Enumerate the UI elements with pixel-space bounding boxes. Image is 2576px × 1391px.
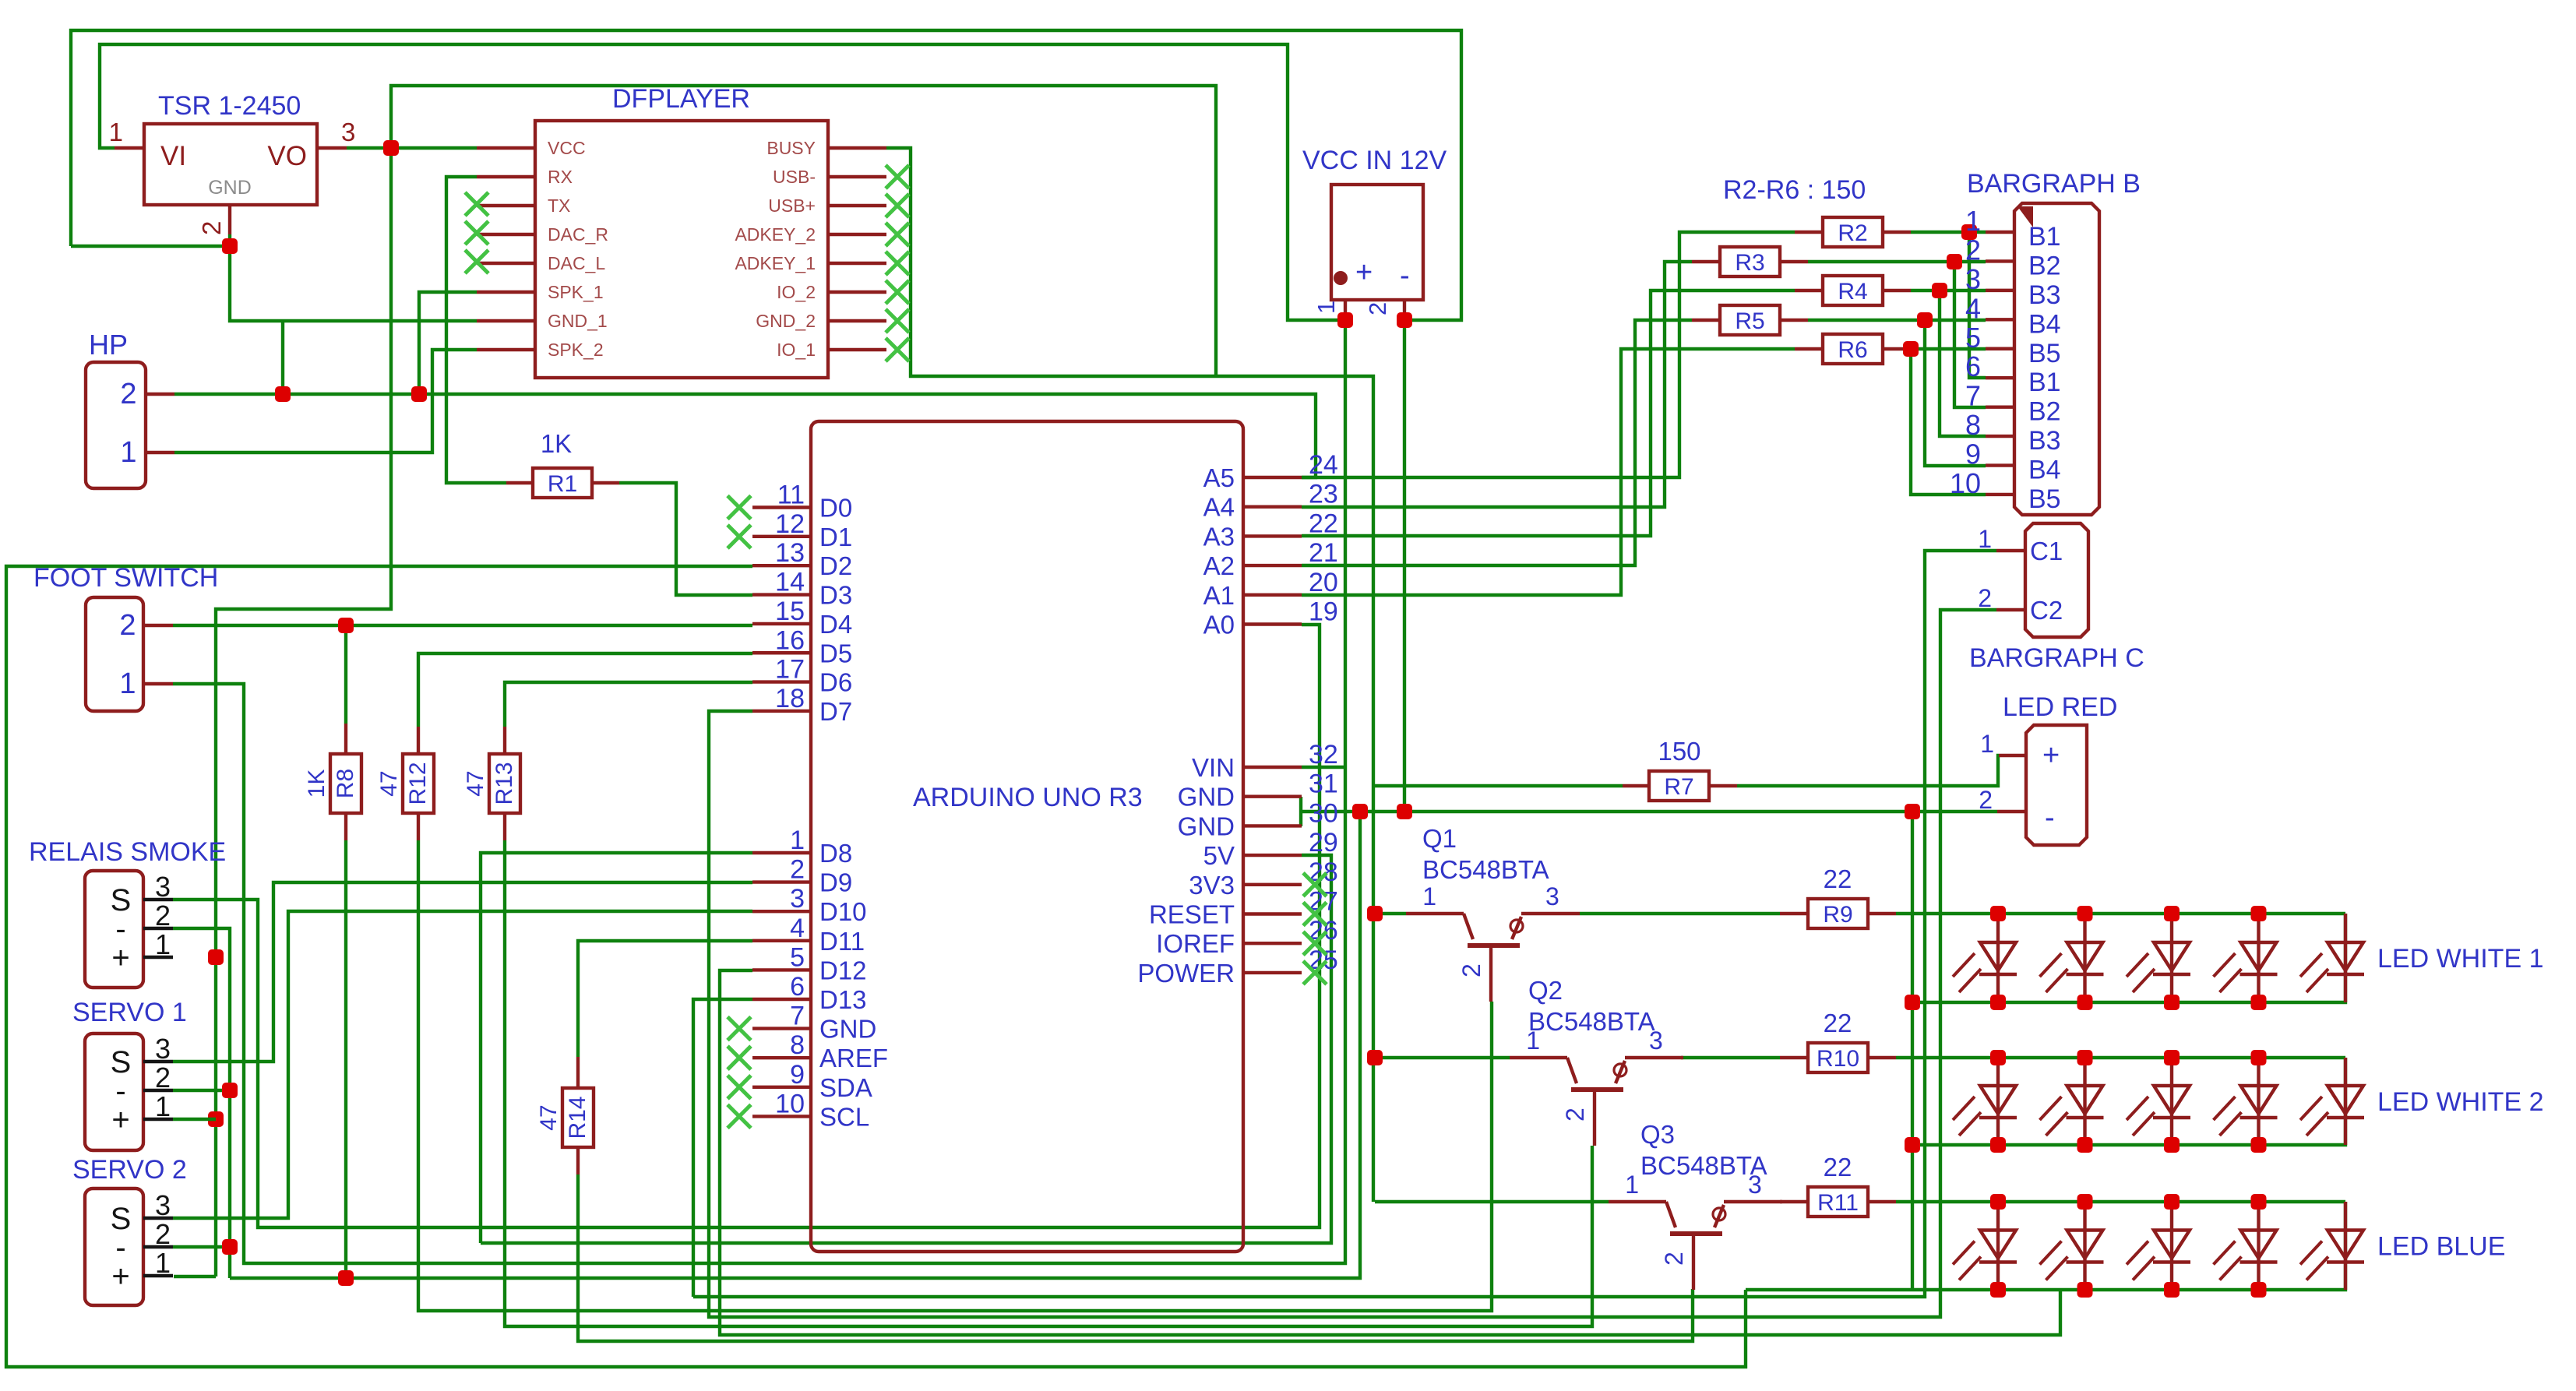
no-connect X DAC_R [465, 221, 488, 245]
svg-text:3V3: 3V3 [1189, 871, 1235, 900]
wire LED row3 bottom bus [1746, 1202, 2345, 1290]
svg-text:2: 2 [1979, 786, 1993, 814]
svg-text:+: + [111, 941, 129, 975]
node R3 out junction [1947, 254, 1962, 269]
node R4 out junction [1932, 283, 1947, 298]
R8 leads [344, 724, 347, 754]
node GND bus junction 3 [1905, 804, 1920, 819]
led LED WHITE 1 #2 [2083, 914, 2086, 1002]
node SERVO1 - junction [222, 1083, 238, 1098]
Arduino pin 5 D12 [752, 968, 811, 971]
wire Q2 collector to R10 [1681, 1056, 1780, 1059]
Arduino pin 32 VIN [1243, 766, 1302, 769]
svg-text:BC548BTA: BC548BTA [1640, 1151, 1767, 1180]
wire GND loop top [71, 30, 1461, 320]
no-connect X TX [465, 192, 488, 216]
no-connect X USB- [886, 165, 909, 188]
R4 leads [1795, 289, 1823, 292]
FOOT SWITCH pin 2 [143, 624, 173, 627]
DFPLAYER pin RX [477, 175, 535, 178]
svg-text:D9: D9 [819, 868, 852, 897]
R14 leads [576, 1057, 580, 1088]
svg-text:8: 8 [1965, 409, 1981, 441]
svg-text:10: 10 [775, 1089, 805, 1118]
led LED BLUE #2 [2083, 1202, 2086, 1290]
svg-text:1: 1 [155, 1247, 171, 1279]
svg-text:R7: R7 [1664, 774, 1693, 800]
svg-text:1K: 1K [304, 769, 329, 798]
no-connect X SCL [728, 1104, 751, 1128]
svg-text:22: 22 [1824, 865, 1852, 893]
svg-text:HP: HP [89, 329, 128, 361]
node R6 out junction [1903, 341, 1919, 357]
wire A3 riser to R4 [1302, 291, 1795, 536]
DFPLAYER pin IO_1 [828, 348, 886, 351]
led LED WHITE 2 #4 [2257, 1058, 2260, 1145]
svg-text:22: 22 [1824, 1009, 1852, 1037]
node GND bus junction 2 [1397, 804, 1412, 819]
svg-text:4: 4 [790, 914, 805, 943]
node GND bus junction 1 [1352, 804, 1368, 819]
no-connect X D0 [728, 496, 751, 519]
node Q2 base junction [1367, 1050, 1383, 1065]
wire SERVO1 plus stub wire [173, 1118, 216, 1121]
svg-text:22: 22 [1309, 509, 1338, 538]
svg-text:1: 1 [1625, 1171, 1639, 1199]
Arduino pin 31 GND [1243, 795, 1302, 798]
node VCC junction [383, 140, 399, 156]
wire RX to R1 [446, 177, 506, 483]
wire R3 out [1808, 260, 1986, 263]
svg-text:R13: R13 [492, 762, 517, 805]
svg-text:1: 1 [1422, 882, 1436, 910]
Arduino pin 25 POWER [1243, 971, 1302, 974]
resistor R8 1K [330, 754, 361, 813]
node LED row1 bottom GND junction [1905, 995, 1920, 1010]
wire HP1-SPK2 [174, 350, 477, 453]
wire D7 to C2 bus [709, 610, 1996, 1317]
wire A0 to RELAIS S [173, 625, 1320, 1227]
svg-text:B2: B2 [2028, 397, 2061, 427]
DFPLAYER pin ADKEY_1 [828, 262, 886, 265]
resistor R10 22 [1808, 1043, 1868, 1072]
SERVO 2 pin 1 + [143, 1274, 173, 1277]
svg-text:GND: GND [1178, 783, 1235, 812]
led LED WHITE 2 #5 [2344, 1058, 2347, 1145]
svg-text:B5: B5 [2028, 339, 2061, 368]
svg-text:1: 1 [1980, 730, 1994, 758]
no-connect X 3V3 [1303, 873, 1327, 896]
svg-text:D10: D10 [819, 897, 867, 926]
svg-text:3: 3 [790, 884, 805, 914]
svg-text:BUSY: BUSY [766, 138, 816, 158]
DFPLAYER pin VCC [477, 146, 535, 150]
svg-text:Q2: Q2 [1528, 976, 1563, 1005]
wire A2 riser to R5 [1302, 320, 1692, 565]
svg-text:D0: D0 [819, 494, 852, 523]
svg-text:GND: GND [819, 1015, 876, 1044]
resistor R7 150 [1649, 771, 1709, 801]
wire R4 out [1911, 289, 1986, 292]
SERVO 1 pin 2 - [143, 1089, 173, 1092]
LED RED pin 1 + [1999, 754, 2026, 757]
svg-text:D5: D5 [819, 639, 852, 667]
svg-text:14: 14 [775, 568, 805, 597]
svg-text:GND_1: GND_1 [548, 311, 608, 331]
svg-text:2: 2 [1965, 234, 1981, 266]
resistor R6 150 [1823, 334, 1883, 364]
svg-text:DAC_R: DAC_R [548, 224, 608, 245]
svg-text:2: 2 [1364, 302, 1391, 315]
resistor R9 22 [1808, 899, 1868, 928]
svg-text:24: 24 [1309, 450, 1338, 480]
wire D10 to SERVO2 S [173, 911, 752, 1218]
led LED RED [2026, 725, 2087, 845]
no-connect X IO_2 [886, 280, 909, 304]
svg-text:A5: A5 [1203, 463, 1235, 492]
led LED WHITE 1 #5 [2344, 914, 2347, 1002]
svg-text:3: 3 [1965, 263, 1981, 295]
svg-text:SCL: SCL [819, 1102, 869, 1131]
Arduino pin 26 IOREF [1243, 942, 1302, 945]
wire SERVO1 minus stub wire [173, 1089, 230, 1092]
svg-text:D8: D8 [819, 839, 852, 868]
wire VO to DFPLAYER VCC [347, 146, 477, 150]
node R8 bottom GND junction [338, 1270, 354, 1286]
R5 leads [1692, 319, 1720, 322]
svg-text:31: 31 [1309, 769, 1338, 799]
R13 leads [503, 727, 506, 754]
svg-text:C1: C1 [2030, 537, 2063, 565]
svg-text:5: 5 [790, 942, 805, 972]
svg-text:3: 3 [155, 871, 171, 903]
svg-text:SPK_1: SPK_1 [548, 282, 604, 302]
svg-text:D2: D2 [819, 551, 852, 580]
svg-text:1: 1 [120, 436, 136, 469]
svg-text:B3: B3 [2028, 426, 2061, 456]
svg-text:2: 2 [155, 1062, 171, 1093]
TSR pin 3 VO [317, 146, 347, 150]
svg-text:D4: D4 [819, 610, 852, 639]
SERVO 2 pin 3 S [143, 1217, 173, 1220]
svg-text:AREF: AREF [819, 1044, 888, 1072]
led LED WHITE 2 #2 [2083, 1058, 2086, 1145]
connector FOOT SWITCH [86, 597, 143, 711]
LED RED pin 2 - [1997, 810, 2026, 813]
no-connect X GND [728, 1017, 751, 1041]
svg-text:B3: B3 [2028, 280, 2061, 310]
svg-text:47: 47 [376, 770, 402, 796]
Arduino pin 3 D10 [752, 910, 811, 913]
svg-text:VCC: VCC [548, 138, 586, 158]
resistor R14 47 [562, 1088, 594, 1147]
svg-text:D11: D11 [819, 927, 865, 956]
RELAIS SMOKE pin 3 S [143, 898, 173, 901]
Arduino pin 30 GND [1243, 824, 1302, 827]
BARGRAPH B pin 10 B5 [1986, 493, 2014, 496]
svg-text:IO_1: IO_1 [777, 340, 816, 360]
led LED WHITE 1 #1 [1996, 914, 2000, 1002]
connector SERVO 2 [85, 1189, 143, 1305]
wire SPK_1 drop [419, 292, 477, 394]
svg-text:VI: VI [160, 141, 186, 171]
svg-text:D7: D7 [819, 697, 852, 726]
svg-text:20: 20 [1309, 568, 1338, 597]
DFPLAYER pin ADKEY_2 [828, 233, 886, 236]
svg-text:B4: B4 [2028, 309, 2061, 339]
svg-text:2: 2 [790, 855, 805, 885]
connector RELAIS SMOKE [85, 871, 143, 988]
BARGRAPH B pin 3 B3 [1986, 289, 2014, 292]
svg-text:LED WHITE 1: LED WHITE 1 [2377, 944, 2543, 974]
wire R9 to LED row1 [1896, 912, 2345, 915]
svg-text:B5: B5 [2028, 484, 2061, 514]
svg-text:B1: B1 [2028, 222, 2061, 252]
Arduino pin 14 D3 [752, 593, 811, 596]
svg-text:SERVO 2: SERVO 2 [72, 1155, 187, 1185]
svg-text:1: 1 [155, 1090, 171, 1122]
led LED BLUE #5 [2344, 1202, 2347, 1290]
R11 leads [1780, 1200, 1808, 1203]
svg-text:4: 4 [1965, 292, 1981, 324]
wire SERVO2 plus stub wire [174, 1275, 216, 1278]
svg-text:LED WHITE 2: LED WHITE 2 [2377, 1087, 2543, 1117]
DFPLAYER pin USB+ [828, 204, 886, 207]
svg-text:SPK_2: SPK_2 [548, 340, 604, 360]
TSR pin 2 GND [228, 205, 231, 234]
no-connect X D1 [728, 525, 751, 548]
svg-text:5V: 5V [1203, 841, 1235, 870]
svg-text:3: 3 [341, 118, 355, 146]
wire D13 to C1 bus [693, 999, 752, 1297]
node SERVO2 - junction [222, 1239, 238, 1255]
DFPLAYER pin BUSY [828, 146, 886, 150]
svg-text:A3: A3 [1203, 522, 1235, 551]
svg-text:1: 1 [1965, 205, 1981, 237]
svg-text:VIN: VIN [1192, 753, 1235, 782]
wire VIN stub wire [1302, 766, 1345, 769]
svg-text:R3: R3 [1735, 250, 1764, 276]
Arduino pin 7 GND [752, 1027, 811, 1030]
wire R6 out [1911, 347, 1986, 350]
svg-text:47: 47 [463, 770, 488, 796]
svg-text:+: + [1355, 256, 1373, 289]
svg-text:R9: R9 [1823, 902, 1852, 928]
DFPLAYER pin TX [477, 204, 535, 207]
BARGRAPH B pin 5 B5 [1986, 347, 2014, 350]
wire GND trunk to LED bottoms [1911, 812, 1914, 1290]
Arduino pin 9 SDA [752, 1086, 811, 1089]
Arduino pin 29 5V [1243, 854, 1302, 857]
wire R7 left [1375, 784, 1623, 787]
svg-text:D6: D6 [819, 668, 852, 697]
no-connect X AREF [728, 1046, 751, 1069]
svg-text:D13: D13 [819, 985, 867, 1014]
node Q1 base junction [1367, 906, 1383, 921]
svg-text:VCC IN 12V: VCC IN 12V [1302, 146, 1447, 175]
wire VIN12V inner top [100, 44, 1344, 320]
node R2 out junction [1961, 224, 1977, 240]
no-connect X POWER [1303, 961, 1327, 984]
svg-text:Q3: Q3 [1640, 1120, 1675, 1149]
R10 leads [1780, 1056, 1808, 1059]
svg-text:23: 23 [1309, 480, 1338, 509]
wire GND_1 net [230, 246, 477, 321]
resistor R5 150 [1720, 305, 1780, 335]
resistor R12 47 [403, 754, 434, 813]
RELAIS SMOKE pin 2 - [143, 927, 173, 930]
wire VCCIN+ to VIN and bus [173, 320, 1345, 1263]
wire SERVO2 minus stub wire [173, 1245, 230, 1248]
svg-text:TSR 1-2450: TSR 1-2450 [158, 91, 301, 121]
svg-text:R2-R6 : 150: R2-R6 : 150 [1723, 175, 1866, 205]
svg-text:DFPLAYER: DFPLAYER [612, 84, 750, 114]
wire B pin5-10 link [1911, 349, 1986, 495]
DFPLAYER pin DAC_L [477, 262, 535, 265]
no-connect X USB+ [886, 194, 909, 217]
Arduino pin 28 3V3 [1243, 883, 1302, 886]
node GND/HP2 junction [275, 386, 291, 402]
svg-text:2: 2 [1978, 584, 1992, 612]
connector SERVO 1 [85, 1034, 143, 1150]
resistor R3 150 [1720, 247, 1780, 276]
Arduino pin 13 D2 [752, 564, 811, 567]
wire R14 to Q3 emitter [578, 1174, 1693, 1341]
R2 leads [1795, 231, 1823, 234]
wire GND bus [1301, 810, 1997, 813]
led LED WHITE 1 #4 [2257, 914, 2260, 1002]
wire LED row2 bottom bus [1912, 1058, 2345, 1145]
R3 leads [1692, 260, 1720, 263]
R7 leads [1623, 784, 1649, 787]
svg-text:1: 1 [155, 928, 171, 960]
svg-text:D12: D12 [819, 956, 867, 984]
no-connect X GND_2 [886, 309, 909, 333]
svg-text:R2: R2 [1838, 220, 1867, 246]
svg-text:USB-: USB- [773, 167, 816, 187]
svg-text:BARGRAPH C: BARGRAPH C [1969, 643, 2144, 673]
BARGRAPH C pin 1 C1 [1996, 549, 2025, 552]
svg-text:7: 7 [790, 1002, 805, 1031]
svg-text:Q1: Q1 [1422, 824, 1457, 853]
svg-text:1: 1 [1978, 525, 1992, 553]
svg-text:11: 11 [777, 481, 805, 510]
RELAIS SMOKE pin 1 + [143, 956, 173, 959]
node VCCIN+ junction [1337, 312, 1353, 328]
Arduino pin 1 D8 [752, 851, 811, 854]
svg-text:2: 2 [120, 378, 136, 410]
svg-text:+: + [111, 1259, 129, 1294]
svg-text:3: 3 [155, 1033, 171, 1065]
resistor R1 1K [533, 468, 592, 498]
svg-text:15: 15 [775, 597, 805, 626]
svg-text:R11: R11 [1817, 1190, 1859, 1216]
BARGRAPH B pin 1 B1 [1986, 231, 2014, 234]
svg-text:150: 150 [1658, 737, 1700, 766]
wire D6 to R13 [505, 682, 752, 727]
svg-text:6: 6 [790, 972, 805, 1002]
BARGRAPH B pin1 marker [2017, 206, 2033, 227]
svg-text:R12: R12 [405, 762, 431, 805]
wire GND jumper pins 31-30 [1299, 797, 1302, 826]
wire HP2-SPK1-A5 [174, 394, 1316, 477]
HP pin 2 [146, 393, 174, 396]
svg-text:POWER: POWER [1137, 959, 1235, 988]
svg-text:12: 12 [775, 509, 805, 539]
no-connect X ADKEY_2 [886, 223, 909, 246]
SERVO 2 pin 2 - [143, 1245, 173, 1248]
R12 leads [417, 727, 420, 754]
svg-text:2: 2 [155, 1218, 171, 1250]
svg-text:ADKEY_1: ADKEY_1 [735, 253, 816, 273]
Arduino pin 16 D5 [752, 651, 811, 654]
svg-text:21: 21 [1309, 538, 1338, 568]
Arduino pin 8 AREF [752, 1056, 811, 1059]
wire 5V riser up and BUSY loop [391, 86, 1216, 376]
svg-text:R14: R14 [565, 1096, 590, 1139]
Arduino pin 19 A0 [1243, 622, 1302, 625]
svg-text:2: 2 [1660, 1252, 1688, 1266]
resistor R11 22 [1808, 1187, 1868, 1217]
wire Q1 base wire [1375, 912, 1406, 915]
wire B pin3-8 link [1940, 291, 1986, 436]
svg-text:BC548BTA: BC548BTA [1528, 1007, 1655, 1036]
wire C1 bus [693, 551, 1996, 1297]
wire R1 to D3 [619, 483, 752, 595]
DFPLAYER pin SPK_1 [477, 291, 535, 294]
led LED BLUE #4 [2257, 1202, 2260, 1290]
Arduino pin 4 D11 [752, 939, 811, 942]
svg-text:B1: B1 [2028, 368, 2061, 397]
wire R8 bottom to GND bus [344, 840, 347, 1278]
DFPLAYER pin GND_2 [828, 319, 886, 322]
svg-text:3: 3 [155, 1189, 171, 1221]
svg-text:1: 1 [1313, 301, 1340, 314]
R1 leads [506, 481, 533, 484]
svg-text:16: 16 [775, 625, 805, 655]
wire Q1 collector to R9 [1580, 912, 1780, 915]
svg-text:C2: C2 [2030, 596, 2063, 625]
wire A4 riser to R3 [1302, 262, 1692, 507]
svg-text:USB+: USB+ [768, 195, 816, 216]
node FS2/D4 junction [338, 618, 354, 633]
svg-text:A2: A2 [1203, 551, 1235, 580]
node SERVO1 + junction [208, 1111, 224, 1127]
svg-text:1K: 1K [541, 429, 572, 458]
R9 leads [1780, 912, 1808, 915]
Arduino pin 2 D9 [752, 880, 811, 883]
display BARGRAPH C [2025, 523, 2088, 637]
wire GND branch to HP2 [281, 321, 284, 394]
SERVO 1 pin 1 + [143, 1118, 173, 1121]
wire R12 to Q1 emitter [418, 840, 1492, 1311]
BARGRAPH B pin 2 B2 [1986, 259, 2014, 262]
DFPLAYER pin DAC_R [477, 233, 535, 236]
BARGRAPH B pin 9 B4 [1986, 463, 2014, 467]
svg-text:R8: R8 [333, 769, 358, 798]
svg-text:LED RED: LED RED [2003, 692, 2117, 722]
wire RELAIS minus trunk [173, 928, 230, 1278]
node VCCIN- junction [1397, 312, 1412, 328]
wire R2 out [1911, 231, 1986, 234]
VCC IN pin 2 - [1403, 300, 1406, 320]
Arduino pin 21 A2 [1243, 564, 1302, 567]
svg-text:DAC_L: DAC_L [548, 253, 605, 273]
svg-text:5: 5 [1965, 322, 1981, 354]
Arduino pin 23 A4 [1243, 505, 1302, 509]
svg-text:IO_2: IO_2 [777, 282, 816, 302]
svg-text:A4: A4 [1203, 493, 1235, 522]
